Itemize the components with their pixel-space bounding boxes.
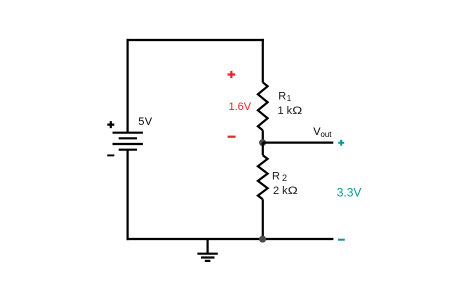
ground (197, 240, 217, 261)
resistor R1 (258, 82, 268, 130)
svg-text:1 kΩ: 1 kΩ (278, 105, 303, 117)
wire R1 bottom to node (262, 130, 264, 142)
polarity mark + (across R1, red) (228, 71, 236, 78)
node junction bottom (259, 236, 266, 243)
svg-text:R2: R2 (272, 170, 287, 183)
svg-text:1.6V: 1.6V (229, 101, 252, 113)
resistor R2 (258, 155, 268, 199)
wire Vout horizontal (263, 142, 334, 144)
battery V1 (5V) (113, 133, 143, 150)
wire bottom horizontal (127, 238, 334, 240)
wire left vertical upper (battery + to top) (126, 39, 128, 133)
wire node to R2 top (262, 143, 264, 156)
battery negative terminal mark - (107, 154, 114, 156)
wire left vertical lower (battery - to bottom) (126, 150, 128, 240)
wire R2 bottom vertical (262, 199, 264, 239)
output positive mark + (teal) (338, 140, 344, 146)
node junction Vout (259, 139, 266, 146)
wire top horizontal (127, 39, 264, 41)
svg-text:5V: 5V (138, 116, 153, 128)
polarity mark - (across R1, red) (228, 136, 236, 138)
svg-text:2 kΩ: 2 kΩ (273, 185, 298, 197)
battery positive terminal mark + (107, 121, 114, 128)
output negative mark - (teal) (338, 239, 345, 241)
svg-text:3.3V: 3.3V (337, 185, 362, 199)
wire right vertical (top to R1) (262, 39, 264, 83)
